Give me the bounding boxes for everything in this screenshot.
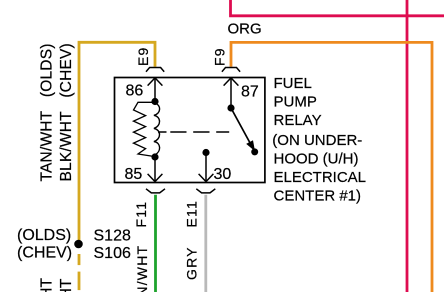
relay box U/H electrical center [115, 78, 265, 183]
svg-text:PUMP: PUMP [274, 93, 317, 110]
node switch pivot dot [227, 104, 234, 111]
svg-text:(ON UNDER-: (ON UNDER- [272, 132, 362, 149]
wire ORG (orange: from relay pin 87 up, right, down right side) [231, 42, 432, 292]
svg-text:87: 87 [241, 84, 259, 101]
connector hat E9 (box top, pin 86) [146, 68, 164, 72]
svg-text:ELECTRICAL: ELECTRICAL [274, 169, 367, 186]
pin 87 arrow (up) [230, 79, 232, 109]
svg-text:(CHEV): (CHEV) [17, 244, 72, 261]
pin 86 arrow (up) [154, 79, 156, 102]
wire GRN/WHT (green, below pin 85) [154, 195, 157, 292]
svg-text:30: 30 [214, 166, 232, 183]
svg-text:RELAY: RELAY [274, 112, 322, 129]
node coil bottom dot [151, 153, 158, 160]
svg-text:CENTER #1): CENTER #1) [274, 187, 362, 204]
connector cup E11 (box bottom, pin 30) [196, 189, 215, 193]
svg-text:TAN/WHT: TAN/WHT [39, 278, 56, 292]
svg-text:(OLDS): (OLDS) [17, 227, 71, 244]
svg-text:F11: F11 [133, 201, 149, 228]
svg-text:FUEL: FUEL [274, 75, 312, 92]
svg-text:86: 86 [126, 83, 144, 100]
svg-text:BLK/WHT (CHEV): BLK/WHT (CHEV) [58, 43, 75, 181]
wire PNK feed (crimson, top-left to right edge) [231, 0, 444, 16]
splice S128/S106 junction dot [74, 240, 83, 249]
svg-text:E9: E9 [135, 46, 151, 66]
connector cup F11 (box bottom, pin 85) [146, 189, 165, 193]
relay coil resistor zigzag [134, 102, 156, 156]
svg-text:E11: E11 [184, 200, 200, 227]
svg-text:S128: S128 [94, 228, 131, 245]
node coil top dot [151, 98, 158, 105]
svg-text:GRY: GRY [184, 246, 200, 280]
wire TAN/WHT dashed continuation [78, 254, 81, 265]
wire PNK vertical (crimson, full height right side) [406, 0, 409, 292]
wire TAN/WHT (gold: left vertical, to relay pin 86) [79, 42, 155, 244]
svg-text:BLK/WHT: BLK/WHT [58, 278, 75, 292]
pin 85 arrow (down) [154, 157, 156, 181]
svg-text:ORG: ORG [228, 21, 262, 38]
svg-text:85: 85 [125, 166, 143, 183]
relay coil scallops [154, 103, 160, 155]
svg-text:GRN/WHT: GRN/WHT [134, 245, 150, 292]
svg-text:HOOD (U/H): HOOD (U/H) [274, 151, 359, 168]
node pin 30 dot [202, 149, 209, 156]
svg-text:S106: S106 [94, 245, 131, 262]
svg-text:F9: F9 [212, 47, 228, 66]
pin 30 arrow (down) [205, 153, 207, 182]
mechanical link dashes (coil to switch) [158, 131, 167, 133]
wire GRY (gray, below pin 30) [204, 195, 207, 292]
connector hat F9 (box top, pin 87) [222, 68, 240, 72]
svg-text:TAN/WHT (OLDS): TAN/WHT (OLDS) [39, 43, 56, 181]
switch blade with arrowhead [231, 108, 250, 143]
